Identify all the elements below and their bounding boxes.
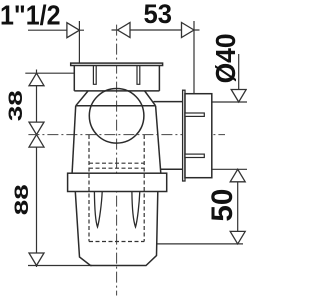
- bottom extension line for 88: [28, 265, 92, 267]
- arrowhead 38 bottom pointing down: [29, 122, 44, 135]
- hidden dip tube right dashed: [143, 135, 145, 242]
- leader line Ø40: [238, 54, 240, 102]
- arrowhead 1"1/2 pointing right: [67, 23, 80, 38]
- extension line pipe top for Ø40: [212, 101, 247, 103]
- left rib in cup: [93, 66, 96, 85]
- left prong: [94, 192, 102, 228]
- arrowhead 38 top pointing up: [29, 73, 44, 86]
- left shoulder: [76, 91, 88, 106]
- lower cup body: [75, 192, 158, 266]
- inlet cup: [74, 66, 159, 91]
- dimension line 50: [237, 169, 239, 244]
- outlet pipe top edge: [154, 101, 183, 103]
- vertical centerline: [116, 25, 118, 296]
- arrowhead 53 left pointing left: [118, 23, 131, 38]
- dimension line 38: [36, 70, 38, 135]
- extension line trap bottom for 50: [157, 243, 244, 245]
- svg-text:50: 50: [206, 189, 239, 222]
- horizontal centerline: [28, 134, 225, 136]
- right shoulder: [145, 91, 156, 106]
- arrowhead Ø40 pointing down: [231, 90, 246, 103]
- wall flange: [183, 90, 185, 181]
- extension line from 1"1/2 arrow down to plate: [78, 21, 80, 63]
- svg-text:Ø40: Ø40: [210, 33, 241, 83]
- hidden seat lower dashed: [89, 167, 144, 169]
- arrowhead 53 right pointing right: [182, 23, 195, 38]
- extension line pipe bottom for 50: [212, 168, 247, 170]
- outlet nut upper rib: [185, 113, 204, 116]
- dimension line 53: [112, 29, 200, 31]
- trapezoid right side: [156, 106, 161, 173]
- svg-text:88: 88: [12, 184, 33, 215]
- outlet nut: [185, 94, 212, 178]
- right prong: [132, 192, 140, 228]
- svg-text:38: 38: [6, 90, 27, 121]
- arrowhead 88 top pointing up: [29, 135, 44, 148]
- hidden seat upper dashed: [89, 162, 144, 164]
- leader line for 1"1/2: [28, 29, 84, 31]
- trapezoid body top edge: [76, 105, 156, 107]
- hidden dip tube left dashed: [88, 135, 90, 242]
- svg-text:1"1/2: 1"1/2: [0, 0, 61, 30]
- top plate flange: [71, 63, 163, 65]
- trapezoid left side: [72, 106, 76, 173]
- arrowhead 50 bottom pointing down: [230, 231, 245, 244]
- dimension line 88: [36, 135, 38, 267]
- extension line 53 right down to outlet nut: [193, 21, 195, 94]
- outlet pipe bottom edge: [161, 168, 183, 170]
- arrowhead 88 bottom pointing down: [29, 253, 44, 266]
- outlet nut lower rib: [185, 154, 204, 157]
- svg-text:53: 53: [144, 0, 173, 29]
- right rib in cup: [137, 66, 140, 85]
- hidden tube bottom dashed: [89, 241, 144, 243]
- hex nut: [68, 173, 167, 191]
- ball circle: [89, 89, 144, 144]
- arrowhead 50 top pointing up: [230, 169, 245, 182]
- extension line 38 top: [25, 72, 74, 74]
